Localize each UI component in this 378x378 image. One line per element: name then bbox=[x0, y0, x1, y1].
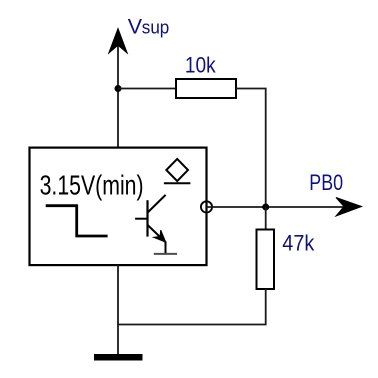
resistor R1 body (10k) bbox=[176, 79, 236, 98]
net label Vsup bbox=[128, 15, 170, 39]
wire R2 bottom down then left to ground rail bbox=[118, 289, 266, 325]
output pin open-circle on U1 bbox=[201, 201, 212, 212]
svg-text:10k: 10k bbox=[185, 53, 217, 78]
wire PB0 node down to R2 top bbox=[265, 207, 267, 230]
open-drain diamond symbol bbox=[164, 159, 191, 183]
resistor R2 body (47k) bbox=[257, 230, 275, 290]
transistor Q1 (NPN, open collector) bbox=[135, 195, 177, 254]
svg-text:sup: sup bbox=[142, 18, 170, 38]
svg-text:3.15V(min): 3.15V(min) bbox=[40, 169, 144, 200]
svg-text:V: V bbox=[128, 15, 143, 39]
power symbol Vsup (arrow) bbox=[109, 29, 127, 148]
svg-text:47k: 47k bbox=[282, 231, 315, 256]
wire U1 bottom down to ground bbox=[117, 265, 119, 354]
falling-edge waveform symbol bbox=[46, 206, 108, 236]
wire output to PB0 arrow bbox=[207, 206, 346, 208]
junction at PB0 node bbox=[262, 204, 269, 211]
svg-text:PB0: PB0 bbox=[309, 170, 343, 195]
detector block U1 bbox=[30, 148, 207, 266]
node PB0 arrow bbox=[336, 198, 362, 217]
ground bbox=[94, 354, 143, 361]
wire R1 right then down to PB0 node bbox=[236, 89, 266, 208]
wire Vsup node to R1 left bbox=[118, 88, 176, 90]
junction at Vsup node bbox=[115, 85, 122, 92]
